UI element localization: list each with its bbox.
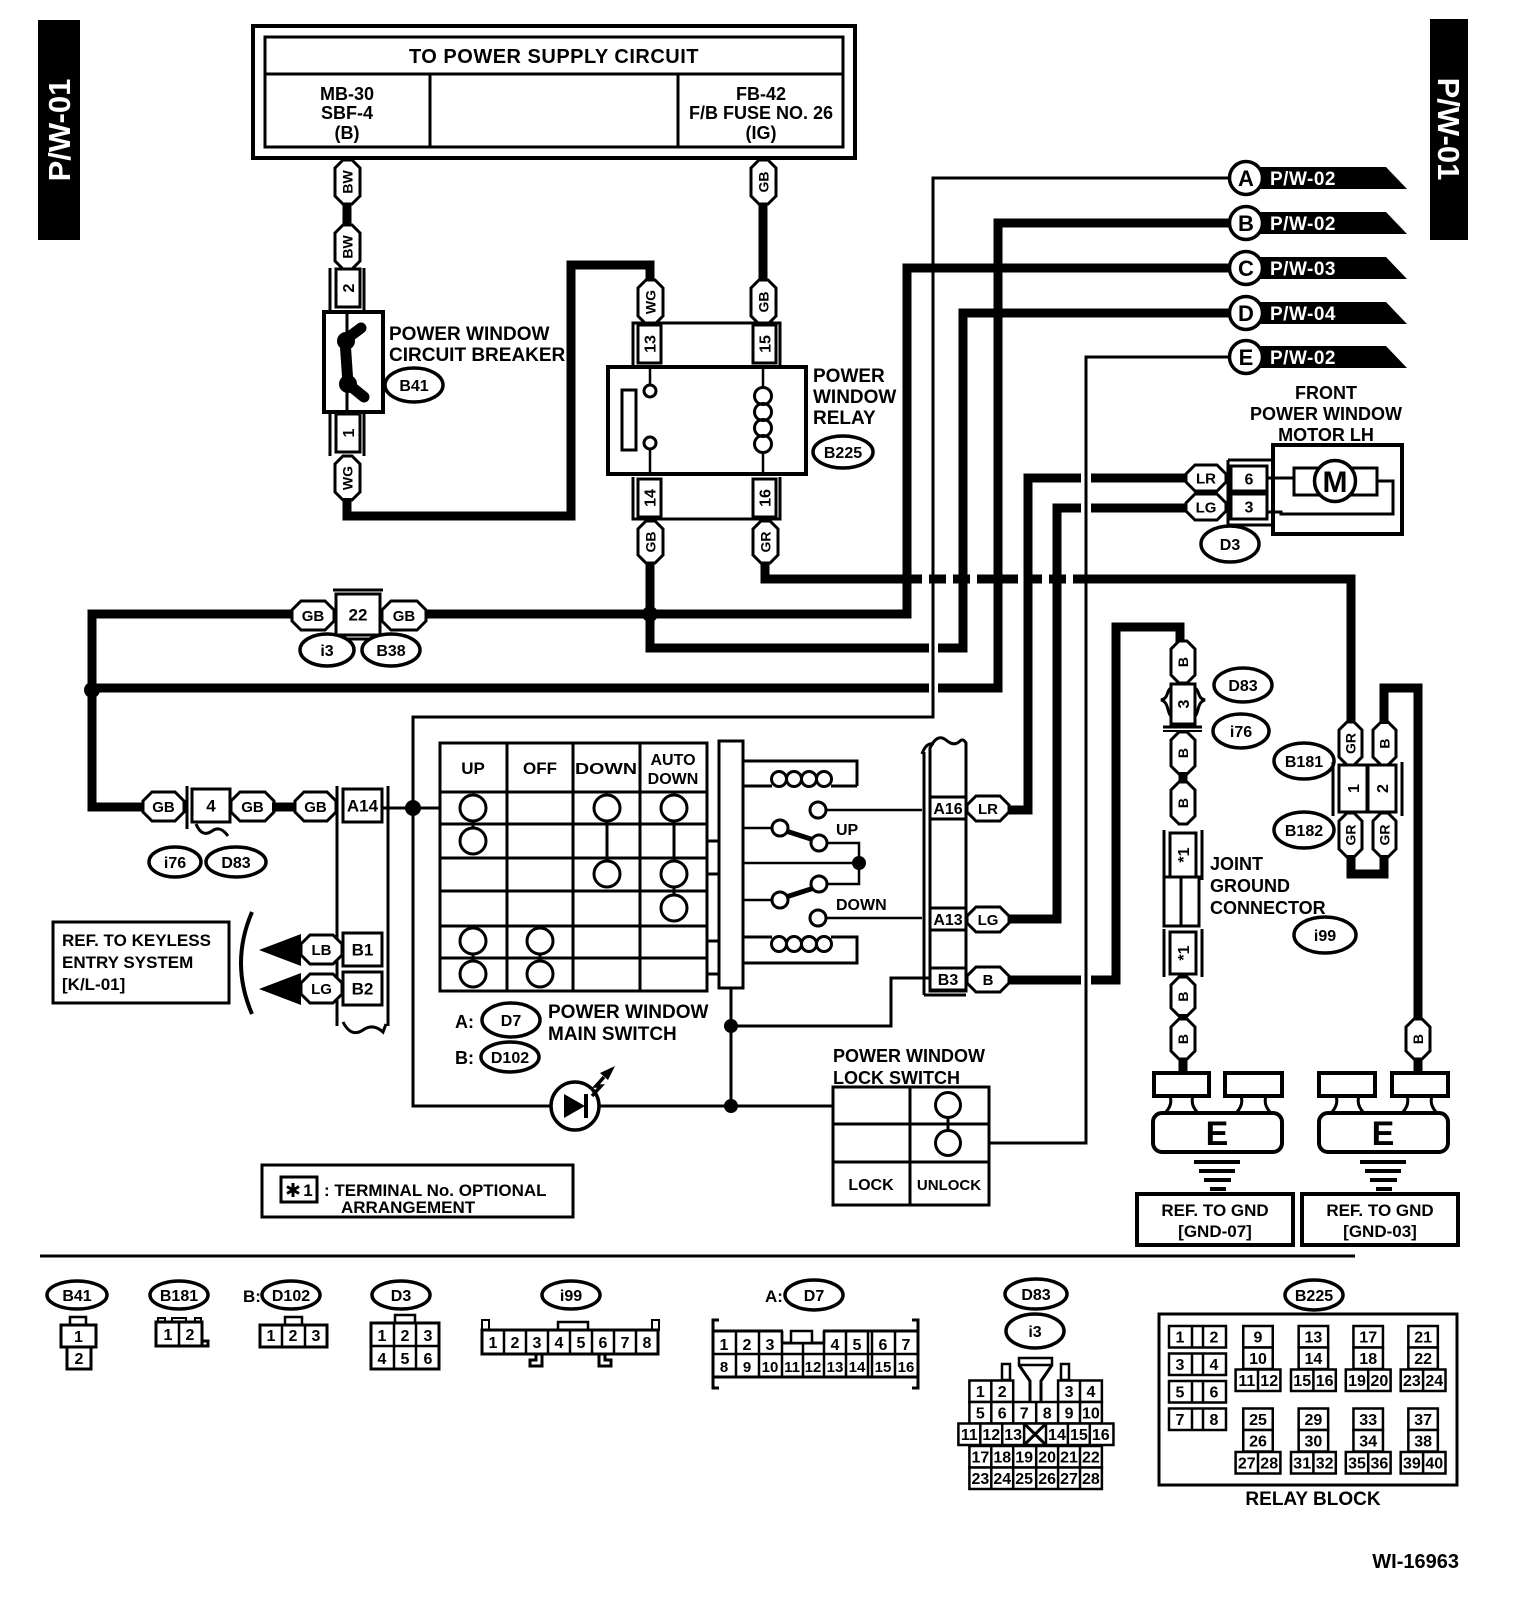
pin B2 of D102: [343, 972, 382, 1005]
svg-text:1: 1: [720, 1337, 729, 1354]
connector label LR motor: [1186, 465, 1226, 491]
pin bracket motor: [1228, 460, 1273, 525]
svg-text:RELAY BLOCK: RELAY BLOCK: [1245, 1489, 1380, 1510]
svg-text:E: E: [1239, 345, 1254, 370]
svg-text:B: B: [1175, 657, 1191, 667]
junction dot center contact: [852, 856, 866, 870]
svg-text:5: 5: [853, 1337, 862, 1354]
svg-text:7: 7: [1176, 1412, 1185, 1429]
svg-text:B41: B41: [399, 378, 428, 395]
svg-text:B225: B225: [1295, 1288, 1333, 1305]
svg-text:3: 3: [1176, 1357, 1185, 1374]
svg-text:13: 13: [1004, 1427, 1022, 1444]
svg-text:MAIN SWITCH: MAIN SWITCH: [548, 1024, 677, 1045]
svg-text:7: 7: [1020, 1406, 1029, 1423]
svg-text:B: B: [1410, 1034, 1426, 1044]
connector label BW lower: [335, 225, 360, 269]
svg-text:2: 2: [511, 1335, 520, 1352]
svg-text:34: 34: [1359, 1434, 1377, 1451]
arrow to keyless LB: [259, 934, 301, 966]
svg-text:2: 2: [186, 1327, 195, 1344]
svg-text:P/W-01: P/W-01: [1431, 78, 1466, 181]
power supply block: [253, 26, 855, 158]
svg-text:3: 3: [312, 1328, 321, 1345]
table to strip stubs: [707, 840, 719, 843]
svg-text:B: B: [1377, 738, 1393, 748]
connector label WG above relay: [638, 280, 663, 324]
svg-text:31: 31: [1293, 1456, 1311, 1473]
svg-text:5: 5: [401, 1351, 410, 1368]
svg-text:A: A: [1238, 166, 1254, 191]
svg-text:i3: i3: [320, 643, 333, 660]
svg-text:REF. TO GND: REF. TO GND: [1161, 1201, 1268, 1220]
svg-text:1: 1: [378, 1328, 387, 1345]
svg-text:[GND-03]: [GND-03]: [1343, 1222, 1417, 1241]
svg-text:9: 9: [1065, 1406, 1074, 1423]
svg-text:25: 25: [1015, 1471, 1033, 1488]
connector D83/i3 view: [1019, 1358, 1052, 1365]
svg-text:B3: B3: [938, 972, 959, 989]
pin 3 of D3: [1231, 494, 1267, 519]
svg-text:8: 8: [1210, 1412, 1219, 1429]
svg-text:GR: GR: [1343, 733, 1359, 754]
svg-text:4: 4: [378, 1351, 387, 1368]
svg-text:POWER: POWER: [813, 366, 885, 387]
power window lock switch box: [833, 1087, 989, 1205]
svg-text:9: 9: [743, 1359, 751, 1376]
svg-text:2: 2: [1375, 784, 1392, 793]
svg-text:ARRANGEMENT: ARRANGEMENT: [341, 1198, 476, 1217]
svg-text:D102: D102: [491, 1050, 529, 1067]
svg-text:GB: GB: [152, 799, 175, 816]
ref to gnd 07 box: [1137, 1194, 1293, 1245]
svg-text:B181: B181: [160, 1288, 198, 1305]
connector D3 view: [395, 1315, 415, 1324]
svg-text:RELAY: RELAY: [813, 408, 876, 429]
svg-text:i76: i76: [1230, 724, 1252, 741]
ref to keyless entry box: [53, 922, 229, 1003]
ground E left: [1179, 1059, 1188, 1075]
pin 14 of B225: [638, 479, 661, 517]
svg-text:(B): (B): [335, 123, 360, 143]
junction dot relay GB: [642, 606, 658, 622]
label i99 bottom: [542, 1281, 600, 1309]
pin 4 of i76/D83: [186, 786, 189, 829]
svg-text:15: 15: [875, 1359, 892, 1376]
svg-text:1: 1: [74, 1329, 83, 1346]
svg-text:33: 33: [1359, 1412, 1377, 1429]
svg-text:1: 1: [267, 1328, 276, 1345]
svg-text:4: 4: [206, 797, 216, 816]
wire GB vertical segment: [759, 200, 768, 284]
label D83 bottom: [1005, 1279, 1067, 1309]
svg-text:2: 2: [289, 1328, 298, 1345]
wire GB bus upper to flag C: [92, 268, 1230, 807]
svg-text:17: 17: [971, 1450, 989, 1467]
connector B225 relay block view: [1159, 1314, 1457, 1485]
svg-text:i99: i99: [560, 1288, 582, 1305]
svg-text:2: 2: [743, 1337, 752, 1354]
svg-text:4: 4: [1086, 1384, 1095, 1401]
svg-text:D3: D3: [1220, 537, 1241, 554]
svg-text:22: 22: [1082, 1450, 1100, 1467]
svg-text:P/W-03: P/W-03: [1270, 259, 1336, 280]
svg-text:UNLOCK: UNLOCK: [917, 1177, 981, 1194]
svg-text:29: 29: [1305, 1412, 1323, 1429]
svg-text:22: 22: [349, 606, 368, 625]
pin *1 lower of i99: [1163, 929, 1166, 977]
pin 1 of B41: [329, 412, 332, 456]
wire GB to GB short: [272, 803, 297, 812]
svg-text:GB: GB: [302, 608, 325, 625]
connector label B chain 5: [1171, 1019, 1195, 1059]
connector label GB above relay: [751, 280, 776, 324]
connector label BW upper: [335, 160, 360, 204]
svg-text:9: 9: [1254, 1330, 1263, 1347]
svg-text:10: 10: [762, 1359, 779, 1376]
svg-text:15: 15: [1070, 1427, 1088, 1444]
label D3 bottom: [372, 1281, 430, 1309]
label B181 bottom: [150, 1281, 208, 1309]
svg-text:11: 11: [961, 1427, 978, 1444]
svg-text:[K/L-01]: [K/L-01]: [62, 975, 125, 994]
svg-text:40: 40: [1425, 1456, 1443, 1473]
connector label GR below relay: [753, 521, 778, 563]
wire to pin B3: [731, 978, 930, 1026]
connector label GR B181 pin1: [1339, 722, 1362, 765]
connector label LG keyless: [301, 974, 342, 1003]
connector label LG at A13: [967, 907, 1009, 932]
wire B3 to joint ground: [1009, 976, 1081, 985]
svg-text:A14: A14: [347, 797, 379, 816]
pin *1 upper of i99: [1163, 830, 1166, 880]
svg-text:6: 6: [599, 1335, 608, 1352]
svg-text:24: 24: [1425, 1373, 1443, 1390]
svg-text:25: 25: [1249, 1412, 1267, 1429]
svg-text:LR: LR: [1196, 470, 1216, 487]
svg-text:6: 6: [1245, 471, 1254, 488]
switch arm down: [827, 863, 859, 884]
pin A16 of D7: [930, 797, 966, 819]
svg-text:18: 18: [1359, 1351, 1377, 1368]
svg-text:D83: D83: [1021, 1287, 1050, 1304]
svg-text:SBF-4: SBF-4: [321, 103, 373, 123]
svg-text:1: 1: [164, 1327, 173, 1344]
svg-text:CONNECTOR: CONNECTOR: [1210, 898, 1326, 918]
wire B181 B to ground: [1384, 688, 1418, 1020]
junction dot strip bottom: [724, 1019, 738, 1033]
svg-text:D83: D83: [1228, 678, 1257, 695]
wire strip bottom to LED line: [730, 988, 733, 1106]
svg-text:35: 35: [1348, 1456, 1366, 1473]
svg-text:P/W-02: P/W-02: [1270, 348, 1336, 369]
svg-text:GR: GR: [758, 532, 774, 553]
svg-text:(IG): (IG): [746, 123, 777, 143]
svg-text:23: 23: [971, 1471, 989, 1488]
pin 16 of B225: [753, 479, 776, 517]
svg-text:POWER WINDOW: POWER WINDOW: [1250, 404, 1402, 424]
connector label GR B182 pin1: [1339, 813, 1362, 857]
svg-text:ENTRY SYSTEM: ENTRY SYSTEM: [62, 953, 193, 972]
connector label B chain 3: [1171, 782, 1195, 824]
flag D P/W-04: [1258, 302, 1407, 324]
svg-text:2: 2: [401, 1328, 410, 1345]
wire LR to motor: [1009, 478, 1081, 810]
flag B P/W-02: [1258, 212, 1407, 234]
svg-text:GROUND: GROUND: [1210, 876, 1290, 896]
switch table contact circles: [472, 808, 475, 841]
svg-text:MOTOR LH: MOTOR LH: [1278, 425, 1374, 445]
contact circle up: [810, 802, 826, 818]
ground hatch right: [1360, 1162, 1406, 1189]
svg-text:D102: D102: [272, 1288, 310, 1305]
svg-text:D: D: [1238, 301, 1254, 326]
svg-text:E: E: [1372, 1115, 1395, 1153]
relay pin bracket top: [633, 323, 780, 365]
label B38: [362, 634, 420, 666]
svg-text:28: 28: [1082, 1471, 1100, 1488]
switch coil upper: [743, 761, 857, 786]
svg-text:4: 4: [1210, 1357, 1219, 1374]
contact circle down: [810, 910, 826, 926]
svg-text:TO POWER SUPPLY CIRCUIT: TO POWER SUPPLY CIRCUIT: [409, 46, 699, 68]
wire to flag B: [938, 223, 1230, 688]
pin B1 of D102: [343, 933, 382, 966]
svg-text:P/W-02: P/W-02: [1270, 214, 1336, 235]
svg-text:13: 13: [1305, 1330, 1323, 1347]
svg-text:5: 5: [1176, 1385, 1185, 1402]
svg-text:15: 15: [1293, 1373, 1311, 1390]
svg-text:6: 6: [879, 1337, 888, 1354]
svg-text:11: 11: [784, 1359, 800, 1376]
svg-text:[GND-07]: [GND-07]: [1178, 1222, 1252, 1241]
svg-text:AUTO: AUTO: [650, 752, 695, 769]
svg-text:39: 39: [1403, 1456, 1421, 1473]
connector label LR at A16: [967, 796, 1009, 821]
label D3: [1201, 526, 1259, 562]
svg-text:LR: LR: [978, 801, 998, 818]
svg-text:2: 2: [1210, 1330, 1219, 1347]
svg-text:UP: UP: [461, 759, 485, 778]
svg-text:D7: D7: [501, 1013, 522, 1030]
svg-text:DOWN: DOWN: [575, 761, 637, 778]
pin A14 of D7: [343, 789, 382, 822]
svg-text:B: B: [1175, 798, 1191, 808]
svg-text:B: B: [1175, 991, 1191, 1001]
svg-text:LOCK: LOCK: [848, 1177, 894, 1194]
svg-text:i99: i99: [1314, 928, 1336, 945]
svg-text:WINDOW: WINDOW: [813, 387, 896, 408]
relay pin bracket bottom: [633, 477, 780, 519]
svg-text:GB: GB: [393, 608, 416, 625]
junction dot A14: [405, 800, 421, 816]
svg-text:B: B: [1175, 1034, 1191, 1044]
svg-text:30: 30: [1305, 1434, 1323, 1451]
connector D7 view: [713, 1320, 719, 1388]
connector strip D7/D102 left: [336, 786, 339, 1026]
svg-text:P/W-01: P/W-01: [42, 79, 77, 182]
svg-text:POWER WINDOW: POWER WINDOW: [833, 1046, 985, 1066]
svg-text:POWER WINDOW: POWER WINDOW: [548, 1002, 708, 1023]
svg-text:1: 1: [341, 428, 358, 437]
svg-text:16: 16: [1316, 1373, 1334, 1390]
connector label GB upper: [751, 160, 776, 204]
wire A14 to switch: [382, 807, 440, 810]
ground hatch left: [1194, 1162, 1240, 1189]
svg-text:1: 1: [489, 1335, 498, 1352]
svg-text:F/B FUSE NO. 26: F/B FUSE NO. 26: [689, 103, 833, 123]
switch coil lower: [743, 937, 857, 963]
svg-text:26: 26: [1038, 1471, 1056, 1488]
junction dot LED line: [724, 1099, 738, 1113]
wire LG to motor: [1009, 508, 1081, 919]
svg-text:GB: GB: [756, 292, 772, 313]
svg-text:12: 12: [805, 1359, 822, 1376]
legend terminal optional box: [262, 1165, 573, 1217]
joint ground connector body: [1164, 877, 1199, 926]
keyless brace: [241, 912, 252, 1014]
svg-text:OFF: OFF: [523, 759, 557, 778]
svg-text:16: 16: [898, 1359, 915, 1376]
circuit breaker B41 body: [324, 312, 383, 412]
front power window motor LH body: [1273, 445, 1402, 534]
svg-text:6: 6: [998, 1406, 1007, 1423]
connector GB before A14: [295, 792, 336, 821]
svg-text:A:: A:: [455, 1012, 474, 1032]
label B225: [813, 436, 873, 468]
wire to flag E: [989, 357, 1230, 1143]
wire GR relay to B181 dashed: [765, 563, 905, 579]
svg-text:B225: B225: [824, 445, 862, 462]
page tab P/W-01 left: [38, 20, 80, 240]
connector label B chain 1: [1171, 641, 1195, 683]
svg-text:LG: LG: [978, 912, 999, 929]
connector label B right ground: [1406, 1019, 1430, 1059]
connector B181 view: [158, 1318, 165, 1324]
svg-text:GB: GB: [241, 799, 264, 816]
svg-text:MB-30: MB-30: [320, 84, 374, 104]
svg-text:JOINT: JOINT: [1210, 854, 1263, 874]
svg-text:WG: WG: [643, 290, 659, 314]
svg-text:GR: GR: [1377, 825, 1393, 846]
svg-text:20: 20: [1038, 1450, 1056, 1467]
svg-text:20: 20: [1371, 1373, 1389, 1390]
svg-text:LG: LG: [311, 981, 332, 998]
svg-text:21: 21: [1414, 1330, 1432, 1347]
svg-text:14: 14: [849, 1359, 866, 1376]
relay B225 body: [608, 367, 806, 474]
svg-text:B: B: [1175, 748, 1191, 758]
svg-text:CIRCUIT BREAKER: CIRCUIT BREAKER: [389, 345, 566, 366]
svg-text:LB: LB: [312, 942, 332, 959]
svg-text:10: 10: [1082, 1406, 1100, 1423]
svg-text:LOCK SWITCH: LOCK SWITCH: [833, 1068, 960, 1088]
svg-text:27: 27: [1238, 1456, 1256, 1473]
svg-text:D83: D83: [221, 855, 250, 872]
svg-text:B38: B38: [376, 643, 405, 660]
svg-text:15: 15: [757, 335, 774, 353]
svg-text:REF. TO KEYLESS: REF. TO KEYLESS: [62, 931, 211, 950]
label B181: [1274, 743, 1334, 779]
pin B3 of D102: [930, 968, 966, 990]
svg-text:6: 6: [424, 1351, 433, 1368]
connector label WG below breaker: [335, 456, 360, 500]
svg-text:FRONT: FRONT: [1295, 383, 1357, 403]
label B182: [1274, 812, 1334, 848]
svg-text:7: 7: [621, 1335, 630, 1352]
svg-text:D3: D3: [391, 1288, 412, 1305]
svg-text:GB: GB: [756, 172, 772, 193]
wire BW between connectors: [343, 200, 352, 230]
svg-text:2: 2: [998, 1384, 1007, 1401]
svg-text:5: 5: [577, 1335, 586, 1352]
svg-text:14: 14: [1048, 1427, 1066, 1444]
connector strip D7 right: [930, 738, 966, 991]
pin 2 of B41: [329, 268, 332, 312]
svg-text:23: 23: [1403, 1373, 1421, 1390]
svg-text:WI-16963: WI-16963: [1372, 1551, 1459, 1573]
svg-text:P/W-02: P/W-02: [1270, 169, 1336, 190]
LED D102: [551, 1082, 599, 1130]
svg-text:1: 1: [1346, 784, 1363, 793]
svg-text:DOWN: DOWN: [648, 771, 699, 788]
svg-text:REF. TO GND: REF. TO GND: [1326, 1201, 1433, 1220]
pin 3 of D83/i76: [1161, 688, 1176, 719]
svg-text:3: 3: [1245, 499, 1254, 516]
svg-text:21: 21: [1060, 1450, 1078, 1467]
svg-text:M: M: [1323, 466, 1348, 499]
svg-text:7: 7: [902, 1337, 911, 1354]
wire A net to flag A: [413, 178, 1230, 1106]
ground E right: [1414, 1059, 1423, 1075]
svg-text:A13: A13: [933, 912, 962, 929]
wire breaker to relay pin 13: [347, 265, 650, 516]
svg-text:E: E: [1206, 1115, 1229, 1153]
flag E P/W-02: [1258, 346, 1407, 368]
svg-text:32: 32: [1316, 1456, 1334, 1473]
connector label GR B182 pin2: [1373, 813, 1396, 857]
svg-text:B2: B2: [352, 980, 374, 999]
wire strip to center contact: [743, 862, 859, 865]
svg-text:8: 8: [720, 1359, 728, 1376]
svg-text:14: 14: [1305, 1351, 1323, 1368]
connector label LG motor: [1186, 494, 1226, 520]
wire B182 jumper: [1351, 855, 1384, 874]
svg-text:D7: D7: [804, 1288, 825, 1305]
label B41: [385, 368, 443, 402]
svg-text:DOWN: DOWN: [836, 897, 887, 914]
connector B181/B182 body: [1332, 762, 1335, 816]
connector GB right of 4: [231, 792, 274, 821]
svg-text:13: 13: [642, 335, 659, 353]
svg-text:B1: B1: [352, 941, 374, 960]
svg-text:17: 17: [1359, 1330, 1377, 1347]
svg-text:B182: B182: [1285, 823, 1323, 840]
label i3: [300, 634, 354, 666]
wire chain link 1: [1179, 772, 1188, 784]
svg-text:2: 2: [341, 283, 358, 292]
power window main switch table: [440, 743, 707, 991]
label D83 left: [206, 847, 266, 877]
pin 6 of D3: [1231, 466, 1267, 491]
connector D102 view: [285, 1317, 302, 1325]
connector label GB below relay: [638, 521, 663, 563]
svg-text:3: 3: [1176, 699, 1193, 708]
svg-text:8: 8: [1043, 1406, 1052, 1423]
svg-text:UP: UP: [836, 822, 859, 839]
svg-text:10: 10: [1249, 1351, 1267, 1368]
svg-text:13: 13: [827, 1359, 844, 1376]
